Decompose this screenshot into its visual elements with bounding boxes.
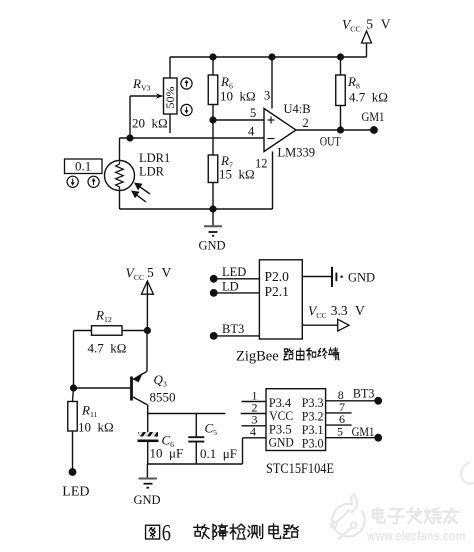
svg-text:3.3: 3.3 [331, 303, 348, 318]
svg-text:www.elecfans.com: www.elecfans.com [366, 529, 465, 544]
wire pin8 BT3 [326, 400, 379, 402]
svg-text:4.7 kΩ: 4.7 kΩ [88, 341, 127, 356]
wire collector branch [148, 413, 226, 415]
svg-text:VCC: VCC [269, 408, 293, 423]
wire zigbee to VCC3.3 [302, 324, 337, 326]
svg-text:BT3: BT3 [222, 322, 244, 336]
label ZigBee router text [236, 348, 339, 365]
terminal GM1 top [370, 126, 378, 134]
wire top rail [170, 56, 367, 58]
svg-text:BT3: BT3 [353, 387, 375, 401]
wire pin4 GND to rail [243, 438, 267, 464]
capacitor C5 [188, 414, 204, 465]
svg-text:3: 3 [264, 89, 270, 103]
svg-text:15 kΩ: 15 kΩ [219, 167, 255, 182]
node rail-GND [209, 205, 216, 212]
LDR light arrows [131, 183, 150, 203]
svg-text:STC15F104E: STC15F104E [266, 461, 334, 477]
wire pin2 stub [241, 413, 266, 415]
svg-text:10 kΩ: 10 kΩ [220, 89, 256, 104]
power VCC 5V bottom [126, 265, 172, 331]
svg-text:V: V [381, 17, 391, 32]
svg-text:P2.1: P2.1 [265, 284, 289, 299]
svg-text:P2.0: P2.0 [265, 269, 290, 284]
svg-text:6: 6 [162, 521, 171, 546]
svg-text:V: V [162, 265, 172, 280]
zigbee module box [259, 260, 302, 339]
svg-text:ZigBee: ZigBee [236, 349, 279, 365]
svg-text:5: 5 [147, 265, 154, 280]
svg-text:4.7 kΩ: 4.7 kΩ [349, 90, 388, 105]
wire pin6 stub [326, 424, 352, 426]
wire bottom rail top-circuit [120, 208, 273, 210]
svg-text:50%: 50% [163, 87, 177, 109]
svg-text:GM1: GM1 [362, 110, 385, 124]
wire pin3 stub [242, 425, 267, 427]
node output-R8 [337, 126, 344, 133]
potentiometer RV3 body [163, 57, 177, 133]
svg-text:LM339: LM339 [278, 146, 316, 160]
node base-R11 [70, 384, 77, 391]
LDR value box 0.1 [65, 159, 103, 174]
svg-text:4: 4 [250, 425, 256, 439]
terminal BT3 chip [374, 397, 382, 405]
svg-text:LED: LED [62, 485, 89, 500]
terminal BT3 zigbee [210, 332, 218, 340]
node rail-R6 [209, 53, 216, 60]
terminal GM1 chip [374, 434, 382, 442]
wire pin4 net [120, 137, 265, 139]
wire collector down [147, 405, 149, 432]
svg-text:OUT: OUT [320, 135, 341, 149]
wire BT3 to zigbee [214, 335, 260, 337]
terminal LD [210, 289, 218, 297]
wire pin12 ground [272, 152, 274, 210]
resistor R8 [336, 57, 346, 130]
LDR down arrow [67, 176, 78, 187]
svg-text:20 kΩ: 20 kΩ [132, 116, 168, 131]
wire zigbee to GND [302, 276, 331, 278]
svg-text:GND: GND [199, 239, 226, 253]
svg-text:10 μF: 10 μF [150, 446, 184, 461]
RV3 adjust up arrow [181, 78, 192, 89]
svg-text:4: 4 [248, 125, 255, 139]
node rail-R8 [337, 53, 344, 60]
power VCC 3.3V arrow [338, 319, 349, 331]
caption figure 6 fault detection circuit [146, 521, 299, 546]
svg-text:GND: GND [348, 271, 375, 285]
svg-text:GND: GND [269, 434, 294, 449]
wire RV3 wiper to node [129, 96, 131, 138]
resistor R12 [74, 326, 148, 336]
svg-text:P3.0: P3.0 [302, 435, 324, 450]
terminal LED zigbee [210, 275, 218, 283]
svg-text:0.1: 0.1 [75, 159, 91, 174]
wire base [74, 387, 131, 389]
svg-text:5: 5 [366, 17, 373, 32]
resistor R7 [208, 120, 218, 209]
svg-text:2: 2 [303, 116, 309, 130]
svg-text:8550: 8550 [150, 390, 176, 405]
watermark logo circle [331, 495, 365, 540]
resistor R11 [68, 388, 78, 472]
wire pin5 net [213, 119, 264, 121]
LDR up arrow [88, 176, 99, 187]
svg-text:U4:B: U4:B [284, 102, 311, 116]
op-amp U4:B LM339 [264, 109, 296, 152]
ground GND top [199, 209, 226, 253]
terminal LED left [69, 468, 77, 476]
wire LED to P2.0 [214, 278, 260, 280]
ground GND bottom [134, 464, 161, 507]
watermark swirl top right [461, 462, 474, 484]
wire pin5 GM1 [326, 437, 379, 439]
photoresistor LDR1 [105, 138, 135, 209]
svg-text:0.1 μF: 0.1 μF [200, 446, 237, 461]
wire opamp output [296, 129, 374, 131]
wire pin3 power [271, 57, 273, 109]
svg-text:V: V [355, 303, 365, 318]
wire emitter to VCC [146, 331, 148, 372]
svg-text:LD: LD [222, 280, 239, 294]
node rail-pin3 [268, 53, 275, 60]
ground GND right sideways [332, 267, 375, 287]
capacitor C6 polarized [136, 432, 159, 464]
svg-text:LDR: LDR [139, 165, 165, 179]
svg-text:GM1: GM1 [352, 425, 375, 439]
label VCC 3.3 V [308, 303, 365, 320]
svg-text:LDR1: LDR1 [139, 151, 170, 165]
svg-text:5: 5 [250, 106, 256, 120]
RV3 adjust down arrow [181, 104, 192, 115]
wire pin1 stub [242, 401, 267, 403]
wire pin7 stub [326, 412, 352, 414]
resistor R6 [208, 57, 218, 120]
svg-text:12: 12 [255, 157, 268, 171]
potentiometer RV3 wiper arrow [130, 93, 164, 99]
power VCC 5V top [342, 17, 391, 58]
watermark text dianzifashaoyou [373, 507, 385, 522]
transistor Q3 8550 [132, 371, 148, 405]
wire LD to P2.1 [214, 292, 260, 294]
node R6-pin5 [209, 116, 216, 123]
node R12-VCC [144, 327, 151, 334]
svg-text:10 kΩ: 10 kΩ [78, 420, 114, 435]
wire R12 left down to base node [73, 331, 75, 389]
node wiper-pin4 [126, 134, 133, 141]
svg-text:GND: GND [134, 493, 161, 507]
svg-text:LED: LED [222, 265, 246, 279]
chip STC15F104E box [266, 389, 326, 451]
wire bottom rail bottom-circuit [148, 463, 243, 465]
svg-text:5: 5 [337, 425, 343, 439]
